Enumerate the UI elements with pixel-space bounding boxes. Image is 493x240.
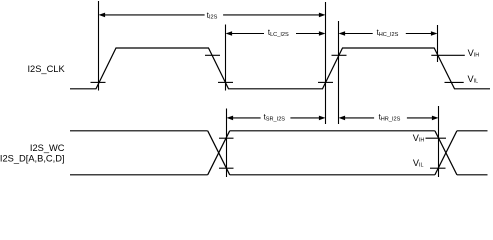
node extension line at data X2 invalid point	[438, 106, 440, 177]
node extension line at clock falling edge 2 VIH crossing	[437, 25, 439, 62]
wire tLC_I2S dimension line right segment	[296, 33, 320, 35]
node VIH reference line to clock falling edge 2	[431, 54, 465, 56]
wire bus top rail left segment	[70, 130, 208, 132]
svg-text:I2S_D[A,B,C,D]: I2S_D[A,B,C,D]	[0, 154, 65, 164]
wire tSR_I2S dimension line left segment	[232, 117, 261, 119]
svg-text:I2S_CLK: I2S_CLK	[27, 64, 65, 74]
node tick VIL on rising edge 2	[318, 81, 333, 83]
wire bus crossover X2 falling leg	[435, 131, 457, 175]
node tick VIH on rising edge 2	[332, 54, 347, 56]
node extension line at clock rising edge 2 VIL crossing	[325, 2, 327, 124]
wire bus bottom rail middle segment	[230, 174, 435, 176]
node tHC_I2S right arrowhead	[431, 31, 438, 36]
node tick VIL on rising edge 1	[91, 81, 106, 83]
node tick VIL on falling edge 1	[218, 81, 233, 83]
wire tHR_I2S dimension line left segment	[344, 117, 374, 119]
node tHR_I2S right arrowhead	[432, 116, 439, 121]
svg-text:I2S_WC: I2S_WC	[30, 143, 65, 153]
wire tHC_I2S dimension line right segment	[406, 33, 432, 35]
node VIL reference line on clock falling edge 2	[445, 81, 464, 83]
wire tSR_I2S dimension line right segment	[290, 117, 319, 119]
node tick VIH on falling edge 1	[205, 54, 220, 56]
node tI2S right arrowhead	[319, 13, 326, 18]
wire bus crossover X2 rising leg	[435, 131, 457, 175]
node tI2S left arrowhead	[99, 13, 106, 18]
node VIH reference line at X2	[426, 137, 447, 139]
node extension line at clock rising edge 2 VIH crossing	[338, 21, 340, 124]
wire bus bottom rail left segment	[70, 174, 208, 176]
node tSR_I2S left arrowhead	[227, 116, 234, 121]
node tSR_I2S right arrowhead	[319, 116, 326, 121]
wire tLC_I2S dimension line left segment	[231, 33, 264, 35]
node tHC_I2S left arrowhead	[339, 31, 346, 36]
node tick VIH at X1	[219, 137, 234, 139]
wire bus crossover X1 falling leg	[208, 131, 230, 175]
wire tHC_I2S dimension line left segment	[345, 33, 373, 35]
wire bus crossover X1 rising leg	[208, 131, 230, 175]
wire tI2S dimension line right segment	[223, 14, 320, 16]
wire tHR_I2S dimension line right segment	[407, 117, 433, 119]
node extension line at clock falling edge 1 VIL crossing	[225, 25, 227, 91]
wire bus top rail right segment	[457, 130, 488, 132]
wire tI2S dimension line left segment	[104, 14, 205, 16]
wire I2S_CLK waveform	[70, 48, 490, 89]
wire bus bottom rail right segment	[457, 174, 488, 176]
node extension line at data X1 valid point	[226, 109, 228, 178]
node tLC_I2S left arrowhead	[226, 31, 233, 36]
node VIL reference line at X2	[430, 167, 446, 169]
node tick VIL at X1	[219, 167, 234, 169]
node tLC_I2S right arrowhead	[319, 31, 326, 36]
wire bus top rail middle segment	[230, 130, 435, 132]
node extension line at clock rising edge 1 VIL crossing	[98, 1, 100, 91]
node tHR_I2S left arrowhead	[339, 116, 346, 121]
